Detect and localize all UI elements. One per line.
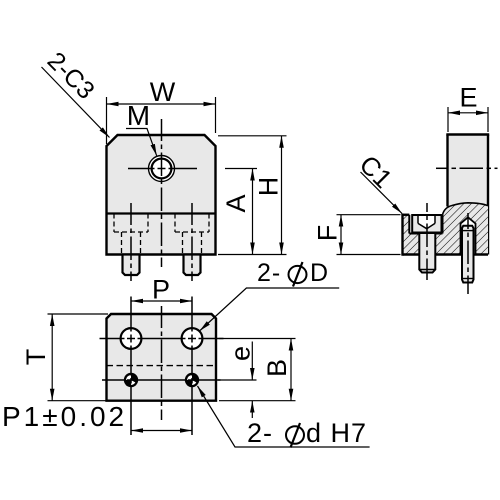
bottom view block — [107, 314, 217, 401]
bottom view centerline vertical right — [191, 297, 193, 436]
svg-text:P: P — [152, 275, 170, 305]
screw shank side view — [419, 233, 435, 273]
bottom view centerline vertical middle — [161, 306, 163, 420]
label 2-phid H7 — [247, 418, 367, 448]
dimension A line — [252, 169, 254, 255]
bottom view hidden step line dashed — [107, 365, 217, 367]
screw head side view — [412, 215, 441, 233]
dimension W line — [107, 103, 216, 105]
bottom view dowel hole right 2-phid — [185, 373, 199, 387]
leader M — [126, 129, 157, 156]
tapped hole M circle inner — [152, 159, 172, 179]
bottom view centerline horizontal bottom row — [102, 379, 221, 381]
dimension P line — [131, 300, 192, 302]
dowel pin side view — [462, 226, 474, 283]
dimension B extension lines — [219, 338, 296, 340]
front centerline vertical middle — [161, 119, 163, 267]
leader 2-phid H7 — [198, 386, 370, 447]
bottom view top-left hole 2-phiD — [121, 328, 142, 349]
column centerline horizontal — [436, 167, 498, 169]
svg-text:B: B — [262, 359, 292, 377]
dowel pin hole — [461, 217, 476, 254]
dimension A extension line — [225, 168, 257, 170]
dimension F line — [340, 215, 342, 255]
dimension P1 line — [131, 430, 192, 432]
dimension e arrows — [251, 342, 253, 381]
hidden counterbore right (dashed) — [175, 214, 209, 255]
bottom view centerline horizontal top row — [100, 338, 224, 340]
dimension H extension lines — [218, 135, 287, 137]
screw centerline — [426, 203, 428, 280]
leader 2-phiD — [200, 288, 340, 331]
dimension E line — [448, 112, 488, 114]
dimension H line — [281, 136, 283, 255]
dimension e extension line — [218, 379, 257, 381]
svg-text:2-: 2- — [247, 418, 273, 448]
front centerline right pin — [191, 203, 193, 281]
bottom view dowel hole left 2-phid — [124, 373, 138, 387]
side view base hatched section — [403, 203, 489, 255]
svg-text:e: e — [226, 346, 256, 361]
counterbore outline — [409, 215, 442, 234]
front view step line — [107, 212, 216, 214]
label 2-phiD — [257, 259, 328, 287]
svg-text:T: T — [21, 349, 51, 366]
leader 2-C3 — [42, 67, 110, 138]
bottom view centerline vertical left — [130, 297, 132, 436]
dimension B line — [290, 339, 292, 401]
bottom view top-right hole 2-phiD — [182, 328, 203, 349]
leader C1 — [361, 172, 403, 214]
hidden counterbore left (dashed) — [114, 214, 148, 255]
front centerline hole axis horizontal — [128, 168, 197, 170]
svg-text:d H7: d H7 — [306, 418, 367, 448]
svg-text:P1±0.02: P1±0.02 — [2, 401, 127, 432]
dimension W extension lines — [106, 97, 108, 144]
front right pin — [184, 255, 201, 276]
dimension E extension lines — [447, 107, 449, 132]
svg-text:W: W — [150, 77, 176, 107]
svg-text:2-: 2- — [257, 259, 281, 287]
svg-text:H: H — [254, 177, 284, 197]
side base outline — [403, 214, 489, 256]
dimension T extension lines — [48, 313, 109, 315]
hex socket — [418, 216, 435, 229]
tapped hole M circle outer — [149, 156, 175, 182]
front view block body — [107, 135, 216, 255]
svg-text:D: D — [310, 259, 328, 287]
dimension F extension lines — [337, 214, 401, 216]
break line wavy curve — [443, 203, 489, 215]
side view column — [448, 135, 489, 207]
svg-text:M: M — [127, 100, 150, 131]
front centerline left pin — [130, 203, 132, 281]
svg-text:A: A — [221, 194, 251, 212]
svg-text:F: F — [313, 225, 343, 242]
front left pin — [123, 255, 140, 276]
dowel pin centerline — [467, 213, 469, 294]
svg-text:E: E — [459, 82, 477, 112]
dimension T line — [51, 314, 53, 401]
